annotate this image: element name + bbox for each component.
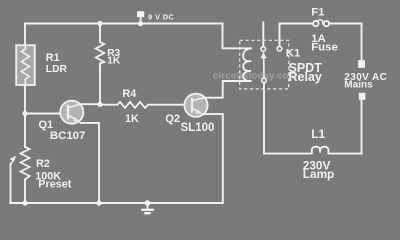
wire R4 left lead: [100, 104, 118, 106]
svg-text:Lamp: Lamp: [303, 167, 334, 181]
svg-text:1K: 1K: [107, 56, 121, 67]
node top rail R3 junction: [97, 21, 102, 26]
svg-text:F1: F1: [311, 6, 325, 18]
relay NO fixed contact: [277, 46, 282, 51]
svg-text:R4: R4: [122, 88, 136, 100]
svg-text:LDR: LDR: [46, 64, 68, 75]
R2 wiper arrow head: [10, 156, 17, 165]
wire R2 bottom lead: [24, 180, 26, 204]
relay coil: [243, 48, 251, 81]
svg-text:K1: K1: [286, 48, 301, 60]
wire Q1 collector to node: [80, 103, 100, 105]
wire top rail: [25, 23, 223, 25]
wire Q2 emitter down to ground rail: [202, 114, 223, 203]
relay armature arrow: [261, 52, 267, 78]
mains lower terminal: [359, 93, 366, 100]
resistor R3 zigzag: [96, 42, 104, 64]
wire left vertical upper: [24, 24, 26, 47]
svg-text:L1: L1: [311, 127, 325, 141]
wire Q1 base lead: [25, 113, 61, 115]
battery terminal 9V DC: [137, 11, 144, 26]
wire R2 wiper lead: [10, 164, 12, 203]
node Q1 emitter on ground rail: [96, 200, 101, 205]
svg-text:1K: 1K: [125, 113, 139, 125]
svg-text:Q2: Q2: [165, 113, 180, 125]
wire left vertical mid: [24, 84, 26, 147]
lamp L1 element: [312, 147, 329, 154]
transistor Q1 BC107: [60, 101, 83, 124]
wire R3 bottom lead: [99, 64, 101, 105]
fuse F1: [313, 20, 329, 26]
mains upper terminal: [358, 60, 365, 68]
node R2 bottom on ground rail: [22, 200, 27, 205]
wire top rail down to relay coil top: [223, 24, 252, 49]
svg-text:Fuse: Fuse: [311, 42, 338, 54]
relay NC fixed contact: [261, 47, 266, 52]
wire Q2 collector up to relay coil bottom: [205, 81, 251, 98]
svg-text:Preset: Preset: [38, 179, 71, 191]
svg-text:Mains: Mains: [344, 80, 373, 91]
wire lamp rail right: [328, 153, 361, 155]
wire relay NC contact stub: [262, 23, 264, 47]
resistor R4 zigzag: [118, 102, 149, 108]
wire R4 right lead to Q2 base: [148, 104, 185, 106]
resistor R1 LDR box: [16, 45, 35, 85]
svg-text:R1: R1: [46, 52, 60, 64]
ground: [141, 200, 154, 213]
relay common contact: [262, 78, 267, 83]
resistor R2 preset zigzag: [21, 147, 30, 180]
transistor Q2 SL100: [184, 94, 207, 117]
svg-text:9 V DC: 9 V DC: [148, 12, 175, 21]
relay K1 dashed enclosure: [240, 40, 289, 89]
svg-text:Q1: Q1: [39, 119, 54, 131]
wire lamp rail left: [264, 153, 312, 155]
wire relay common contact down to lamp rail: [263, 83, 265, 154]
svg-text:Relay: Relay: [289, 70, 322, 84]
svg-text:R2: R2: [36, 158, 50, 170]
wire mains lower terminal down to lamp rail: [361, 100, 363, 154]
wire R3 top lead: [99, 24, 101, 43]
wire bottom ground rail: [11, 202, 223, 204]
svg-text:circuitstoday.com: circuitstoday.com: [213, 70, 297, 80]
wire fuse to right corner down to mains: [329, 24, 361, 61]
wire relay NO contact stub to fuse: [280, 24, 313, 47]
svg-text:BC107: BC107: [50, 130, 85, 142]
svg-text:SL100: SL100: [181, 122, 215, 134]
wire Q1 emitter down to ground rail: [81, 123, 100, 203]
node R1 R2 Q1-base junction: [22, 111, 27, 116]
node R3 Q1-collector R4 junction: [97, 102, 102, 107]
